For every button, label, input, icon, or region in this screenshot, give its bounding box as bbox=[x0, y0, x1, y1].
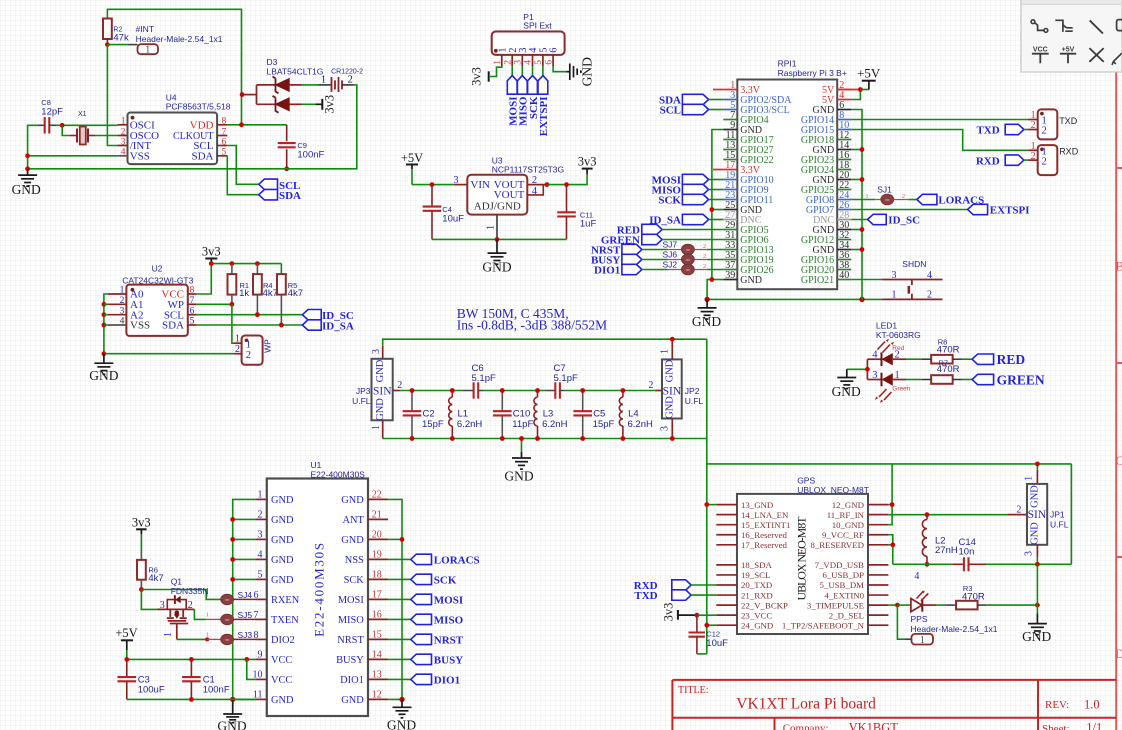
toolbar pen icon bbox=[1112, 53, 1122, 65]
svg-text:6: 6 bbox=[222, 137, 227, 147]
svg-text:6.2nH: 6.2nH bbox=[542, 419, 567, 430]
svg-text:GND: GND bbox=[665, 359, 676, 382]
junction gnd rail left bbox=[25, 166, 30, 171]
GPS pin 12_GND bbox=[868, 504, 888, 506]
toolbar label icon bbox=[1117, 20, 1122, 31]
svg-text:3v3: 3v3 bbox=[470, 67, 484, 86]
svg-text:3: 3 bbox=[514, 60, 524, 65]
junction gnd bus row 7 bbox=[860, 147, 865, 152]
svg-text:3: 3 bbox=[258, 530, 263, 541]
svg-text:PCF8563T/5,518: PCF8563T/5,518 bbox=[166, 101, 231, 111]
junction LED gnd bbox=[865, 367, 870, 372]
svg-text:4: 4 bbox=[872, 350, 878, 361]
header RXD bbox=[1038, 145, 1058, 175]
svg-text:SDA: SDA bbox=[191, 150, 213, 162]
svg-text:40: 40 bbox=[839, 270, 849, 281]
JP3 pin 2 bbox=[393, 390, 400, 392]
svg-text:6.2nH: 6.2nH bbox=[628, 419, 653, 430]
U4 pin 8 bbox=[217, 124, 227, 126]
svg-text:20: 20 bbox=[372, 530, 382, 541]
wire filter right loop bbox=[706, 339, 708, 654]
svg-text:1: 1 bbox=[493, 60, 503, 65]
U1 pin 4 GND bbox=[256, 558, 267, 560]
RPI1 pin 29 GPIO5 bbox=[723, 229, 737, 231]
svg-text:SJ1: SJ1 bbox=[877, 184, 892, 194]
wire JP1 right loop bbox=[1070, 464, 1072, 564]
svg-text:17_Reserved: 17_Reserved bbox=[741, 540, 788, 550]
svg-text:#INT: #INT bbox=[136, 24, 154, 34]
svg-text:REV:: REV: bbox=[1045, 699, 1069, 711]
svg-text:BUSY: BUSY bbox=[434, 655, 463, 667]
junction C11 bbox=[564, 182, 569, 187]
ground U3 bbox=[496, 239, 498, 253]
power flag 3v3 at U2 bbox=[205, 258, 217, 260]
svg-text:4: 4 bbox=[914, 571, 919, 582]
svg-text:1: 1 bbox=[895, 370, 900, 381]
svg-text:1: 1 bbox=[485, 225, 496, 230]
capacitor C4 bbox=[431, 185, 433, 207]
RPI1 pin 4 5V bbox=[837, 99, 851, 101]
U1 pin 11 GND bbox=[256, 698, 267, 700]
svg-text:3v3: 3v3 bbox=[202, 244, 221, 258]
svg-text:10n: 10n bbox=[959, 546, 975, 557]
svg-text:VIN: VIN bbox=[470, 179, 490, 191]
svg-text:1.0: 1.0 bbox=[1084, 697, 1100, 711]
svg-text:6: 6 bbox=[190, 306, 195, 316]
power flag 3v3 at P1 bbox=[488, 71, 490, 81]
svg-text:TXD: TXD bbox=[976, 125, 999, 137]
wire U2 left gnd bbox=[104, 294, 108, 354]
junction U2 left bbox=[102, 302, 107, 307]
svg-text:UBLOX NEO-M8T: UBLOX NEO-M8T bbox=[794, 516, 808, 601]
RPI1 pin 36 GPIO16 bbox=[837, 259, 851, 261]
GPS pin 3_TIMEPULSE bbox=[868, 604, 888, 606]
svg-text:39: 39 bbox=[725, 270, 735, 281]
U3 pin 4 bbox=[527, 185, 543, 195]
wire left GND bus bbox=[707, 130, 723, 300]
junction C4 bbox=[430, 182, 435, 187]
GPS pin 5_USB_DM bbox=[868, 584, 888, 586]
junction JP2 pin1 bbox=[670, 337, 675, 342]
svg-text:1: 1 bbox=[1024, 476, 1035, 481]
svg-text:SDA: SDA bbox=[162, 320, 184, 332]
svg-text:3v3: 3v3 bbox=[578, 155, 597, 169]
U1 pin 12 GND bbox=[368, 698, 388, 700]
junction D3 common bbox=[240, 92, 245, 97]
svg-text:3: 3 bbox=[892, 270, 897, 281]
RPI1 pin 16 GPIO23 bbox=[837, 159, 851, 161]
net port SCL bbox=[259, 179, 278, 189]
ground RTC bbox=[27, 169, 29, 175]
U4 pin 7 bbox=[217, 135, 227, 137]
net port SCK bbox=[532, 66, 534, 76]
wire SDA/ID_SA bbox=[197, 324, 303, 326]
svg-text:U.FL: U.FL bbox=[352, 396, 371, 406]
P1 pin 1 bbox=[501, 55, 503, 66]
net port SCK at U1 bbox=[388, 578, 411, 580]
svg-text:470R: 470R bbox=[937, 344, 960, 355]
P1 pin 5 bbox=[542, 55, 544, 66]
RPI1 pin 27 DNC bbox=[723, 219, 737, 221]
GPS pin 23_VCC bbox=[716, 614, 737, 616]
svg-text:SIN: SIN bbox=[1028, 509, 1047, 521]
svg-text:16_Reserved: 16_Reserved bbox=[741, 530, 788, 540]
svg-text:DIO1: DIO1 bbox=[594, 265, 620, 277]
svg-text:VCC: VCC bbox=[271, 675, 292, 686]
svg-text:TITLE:: TITLE: bbox=[678, 685, 709, 696]
wire 13_GND bbox=[707, 504, 717, 506]
svg-text:5.1pF: 5.1pF bbox=[554, 373, 578, 384]
U4 pin 6 bbox=[217, 145, 227, 147]
junction gnd bus row 15 bbox=[860, 227, 865, 232]
net port SDA at RPI bbox=[682, 94, 708, 104]
GPS pin 20_TXD bbox=[716, 584, 737, 586]
U1 pin 8 DIO2 bbox=[256, 638, 267, 640]
power flag +5V at U1 bbox=[121, 639, 133, 641]
net port RED at LED bbox=[972, 354, 994, 364]
svg-text:2: 2 bbox=[397, 380, 402, 391]
junction C3 bbox=[124, 657, 129, 662]
junction WP2 row bbox=[102, 351, 107, 356]
ground RPI bbox=[706, 299, 708, 308]
GPS pin 10_GND bbox=[868, 524, 888, 526]
svg-text:11_RF_IN: 11_RF_IN bbox=[827, 510, 865, 520]
inductor L2 bbox=[926, 515, 928, 520]
svg-text:1: 1 bbox=[865, 193, 868, 200]
wire U1 bottom gnd rail bbox=[127, 698, 256, 700]
svg-text:100nF: 100nF bbox=[297, 149, 324, 160]
GPS pin 15_EXTINT1 bbox=[716, 524, 737, 526]
svg-text:20_TXD: 20_TXD bbox=[741, 580, 772, 590]
RPI1 pin 18 GPIO24 bbox=[837, 169, 851, 171]
RPI1 pin 12 GPIO18 bbox=[837, 139, 851, 141]
svg-text:DIO1: DIO1 bbox=[340, 675, 364, 686]
svg-text:GND: GND bbox=[341, 695, 364, 706]
U2 pin 3 bbox=[108, 314, 126, 316]
title block frame bbox=[672, 679, 1116, 681]
wire SCL to flag bbox=[227, 146, 258, 185]
svg-text:3: 3 bbox=[453, 175, 458, 186]
svg-text:3_TIMEPULSE: 3_TIMEPULSE bbox=[807, 600, 864, 610]
RPI1 pin 2 5V bbox=[837, 89, 851, 91]
U2 pin 1 bbox=[108, 293, 126, 295]
svg-text:3: 3 bbox=[660, 426, 671, 431]
junction right bus bottom bbox=[859, 297, 864, 302]
wire filter bottom rail bbox=[383, 438, 707, 440]
svg-text:10uF: 10uF bbox=[442, 213, 464, 224]
RPI1 pin 19 GPIO10 bbox=[723, 179, 737, 181]
svg-text:6_USB_DP: 6_USB_DP bbox=[822, 570, 864, 580]
svg-text:3: 3 bbox=[872, 370, 877, 381]
junction C1 bbox=[189, 657, 194, 662]
capacitor C11 bbox=[566, 185, 568, 213]
svg-text:4: 4 bbox=[532, 186, 538, 197]
svg-text:3: 3 bbox=[121, 137, 126, 147]
ground U1 left bbox=[232, 699, 234, 714]
svg-text:2: 2 bbox=[1031, 120, 1036, 131]
svg-text:6.2nH: 6.2nH bbox=[457, 419, 482, 430]
svg-text:MISO: MISO bbox=[434, 615, 464, 627]
wire SDA to flag bbox=[227, 156, 258, 195]
svg-text:2: 2 bbox=[120, 296, 125, 306]
svg-text:1k: 1k bbox=[239, 288, 249, 299]
svg-text:RED: RED bbox=[997, 352, 1026, 367]
svg-text:B: B bbox=[1115, 258, 1122, 273]
junction pin12 bbox=[399, 697, 404, 702]
junction JP1 pin1 bbox=[1035, 462, 1040, 467]
svg-text:GND: GND bbox=[12, 182, 41, 197]
net port SDA bbox=[259, 190, 278, 200]
capacitor C14 bbox=[952, 563, 964, 565]
GPS pin 4_EXTIN0 bbox=[868, 594, 888, 596]
svg-text:2: 2 bbox=[1016, 505, 1021, 516]
RPI1 pin 15 GPIO22 bbox=[723, 159, 737, 161]
svg-text:TXD: TXD bbox=[1059, 116, 1078, 126]
wire JP1 gnd down bbox=[1036, 564, 1038, 613]
junction filter row bbox=[500, 388, 505, 393]
RPI1 pin 11 GPIO17 bbox=[723, 139, 737, 141]
net port LORACS at RPI bbox=[908, 199, 917, 201]
solder jumper SJ7 bbox=[682, 244, 695, 254]
svg-text:1: 1 bbox=[892, 290, 897, 301]
svg-text:100nF: 100nF bbox=[203, 685, 230, 696]
net port LORACS at U1 bbox=[388, 558, 411, 560]
svg-text:JP1: JP1 bbox=[1050, 510, 1065, 520]
svg-text:GND: GND bbox=[375, 398, 386, 421]
net port MOSI bbox=[511, 66, 513, 76]
ground P1 (rotated) bbox=[567, 71, 570, 73]
junction VCC10 branch bbox=[244, 657, 249, 662]
wire 3.3V pin1 bbox=[713, 89, 723, 91]
svg-text:2: 2 bbox=[648, 380, 653, 391]
svg-text:SIN: SIN bbox=[663, 386, 682, 398]
GPS pin 6_USB_DP bbox=[868, 574, 888, 576]
GPS pin 9_VCC_RF bbox=[868, 534, 888, 536]
wire GPIO15 to RXD header bbox=[851, 130, 1027, 151]
svg-text:5: 5 bbox=[534, 60, 544, 65]
junction JP2 pin3 bbox=[670, 436, 675, 441]
U2 pin 5 bbox=[188, 324, 197, 326]
svg-text:17: 17 bbox=[372, 590, 382, 601]
svg-text:VSS: VSS bbox=[130, 320, 150, 332]
toolbar line icon bbox=[1090, 20, 1103, 33]
U2 pin 7 bbox=[188, 303, 197, 305]
RPI1 pin 34 GND bbox=[837, 249, 851, 251]
svg-text:2_D_SEL: 2_D_SEL bbox=[829, 610, 864, 620]
svg-text:SJ4: SJ4 bbox=[238, 590, 253, 600]
svg-text:1uF: 1uF bbox=[580, 219, 597, 230]
wire +5V rail U1 bbox=[127, 658, 256, 660]
power flag +5V at U3 bbox=[406, 164, 418, 166]
svg-text:15_EXTINT1: 15_EXTINT1 bbox=[741, 520, 790, 530]
wire WP net bbox=[197, 303, 232, 305]
junction gnd bus row 10 bbox=[860, 177, 865, 182]
svg-text:GND: GND bbox=[271, 535, 294, 546]
svg-text:47k: 47k bbox=[113, 33, 129, 44]
svg-text:1: 1 bbox=[206, 611, 209, 618]
svg-text:7_VDD_USB: 7_VDD_USB bbox=[815, 560, 864, 570]
svg-text:6: 6 bbox=[549, 48, 560, 53]
svg-text:2: 2 bbox=[1042, 157, 1047, 168]
svg-text:8_RESERVED: 8_RESERVED bbox=[810, 540, 864, 550]
junction L2 bbox=[925, 512, 930, 517]
svg-text:1: 1 bbox=[920, 635, 925, 646]
svg-text:1: 1 bbox=[163, 632, 174, 637]
junction 23_VCC bbox=[695, 613, 700, 618]
JP2 pin 2 bbox=[656, 390, 663, 392]
svg-text:GND: GND bbox=[387, 718, 416, 730]
RPI1 pin 25 GND bbox=[723, 209, 737, 211]
net port TXD bbox=[1005, 124, 1024, 134]
svg-text:2: 2 bbox=[927, 290, 932, 301]
net port GREEN at LED bbox=[972, 374, 994, 384]
net port MISO at RPI bbox=[682, 184, 708, 194]
svg-text:4k7: 4k7 bbox=[148, 573, 163, 584]
net port RXD bbox=[1005, 155, 1024, 165]
GPS pin 8_RESERVED bbox=[868, 544, 888, 546]
svg-text:3: 3 bbox=[120, 306, 125, 316]
net port DIO1 bbox=[622, 264, 642, 274]
U1 pin 15 NRST bbox=[368, 638, 388, 640]
wire VSS net bbox=[28, 155, 118, 157]
net port NRST bbox=[622, 244, 642, 254]
wire PPS header bbox=[897, 605, 905, 639]
svg-text:U.FL: U.FL bbox=[1050, 519, 1069, 529]
svg-text:RXD: RXD bbox=[976, 155, 1000, 167]
capacitor C1 bbox=[190, 659, 192, 677]
svg-text:SHDN: SHDN bbox=[902, 259, 926, 269]
svg-text:MISO: MISO bbox=[338, 615, 364, 626]
svg-text:12_GND: 12_GND bbox=[832, 500, 864, 510]
U1 pin 6 RXEN bbox=[256, 598, 267, 600]
svg-text:5: 5 bbox=[190, 317, 195, 327]
svg-text:Sheet:: Sheet: bbox=[1042, 723, 1070, 730]
GPS pin 16_Reserved bbox=[716, 534, 737, 536]
svg-text:TXD: TXD bbox=[634, 590, 657, 602]
svg-text:7: 7 bbox=[190, 296, 195, 306]
svg-text:1: 1 bbox=[660, 349, 671, 354]
svg-text:2: 2 bbox=[503, 60, 513, 65]
junction filter row bbox=[580, 388, 585, 393]
P1 pin 3 bbox=[521, 55, 523, 66]
svg-text:23_VCC: 23_VCC bbox=[741, 610, 772, 620]
junction VDD bbox=[239, 122, 244, 127]
svg-text:GND: GND bbox=[1022, 629, 1051, 644]
sheet frame right border bbox=[1115, 0, 1117, 730]
svg-text:FDN335N: FDN335N bbox=[171, 586, 209, 596]
RPI1 pin 22 GPIO25 bbox=[837, 189, 851, 191]
svg-text:19_SCL: 19_SCL bbox=[741, 570, 770, 580]
svg-text:VK1XT Lora Pi board: VK1XT Lora Pi board bbox=[736, 695, 876, 712]
svg-text:EXTSPI: EXTSPI bbox=[538, 97, 550, 137]
svg-text:2: 2 bbox=[1042, 126, 1047, 137]
wire RPI gnd rail bbox=[707, 298, 882, 300]
wire OSCO bbox=[95, 135, 117, 137]
svg-text:+5V: +5V bbox=[401, 151, 423, 165]
ground U1 right bbox=[401, 699, 403, 707]
svg-text:SIN: SIN bbox=[373, 386, 392, 398]
U4 pin 1 bbox=[117, 124, 127, 126]
svg-text:U1: U1 bbox=[311, 460, 322, 470]
wire GPIO21 to SHDN bbox=[851, 279, 882, 281]
wire RF gnd rail bbox=[893, 563, 953, 565]
svg-text:4k7: 4k7 bbox=[263, 288, 278, 299]
net port MISO bbox=[521, 66, 523, 76]
svg-text:SJ6: SJ6 bbox=[663, 250, 678, 260]
svg-text:Company:: Company: bbox=[783, 723, 829, 730]
svg-text:LORACS: LORACS bbox=[434, 555, 480, 567]
RPI1 pin 37 GPIO26 bbox=[723, 269, 737, 271]
svg-text:EXTSPI: EXTSPI bbox=[990, 205, 1030, 217]
svg-text:11pF: 11pF bbox=[512, 419, 533, 430]
U1 pin 18 SCK bbox=[368, 578, 388, 580]
svg-text:VSS: VSS bbox=[130, 150, 150, 162]
svg-text:TXEN: TXEN bbox=[271, 615, 299, 626]
svg-text:SDA: SDA bbox=[279, 190, 301, 202]
svg-text:9_VCC_RF: 9_VCC_RF bbox=[822, 530, 864, 540]
svg-text:GND: GND bbox=[375, 359, 386, 382]
junction PPS bbox=[895, 603, 900, 608]
svg-text:7: 7 bbox=[222, 127, 227, 137]
wire VDD top loop bbox=[107, 9, 241, 125]
LED1 green emission arrows bbox=[879, 389, 892, 400]
svg-text:NRST: NRST bbox=[434, 635, 464, 647]
svg-text:21_RXD: 21_RXD bbox=[741, 590, 773, 600]
toolbar panel bbox=[1021, 0, 1122, 72]
GPS pin 11_RF_IN bbox=[868, 514, 888, 516]
svg-text:VCC: VCC bbox=[271, 655, 292, 666]
junction filter row bbox=[621, 388, 626, 393]
junction pin25 bbox=[710, 207, 715, 212]
svg-text:+5V: +5V bbox=[857, 65, 881, 80]
net port MOSI at RPI bbox=[682, 174, 708, 184]
junction U1 bus bbox=[230, 537, 235, 542]
svg-text:SCK: SCK bbox=[434, 575, 457, 587]
net port MOSI at U1 bbox=[388, 598, 411, 600]
RPI1 pin 17 3.3V bbox=[723, 169, 737, 171]
power flag +5V at RPI bbox=[868, 81, 870, 89]
svg-text:KT-0603RG: KT-0603RG bbox=[876, 330, 921, 340]
net port EXTSPI bbox=[542, 66, 544, 76]
wire U3 gnd rail bbox=[432, 238, 567, 240]
P1 pin 4 bbox=[532, 55, 534, 66]
wire R6 to Q1 gate bbox=[141, 590, 157, 610]
svg-text:4k7: 4k7 bbox=[288, 288, 303, 299]
Q1 source pin 1 bbox=[176, 624, 178, 640]
junction 12_GND bbox=[890, 502, 895, 507]
svg-text:Header-Male-2.54_1x1: Header-Male-2.54_1x1 bbox=[136, 34, 223, 44]
svg-text:MOSI: MOSI bbox=[338, 595, 365, 606]
svg-text:4: 4 bbox=[121, 148, 126, 158]
svg-text:4: 4 bbox=[927, 270, 932, 281]
svg-text:2: 2 bbox=[348, 75, 353, 86]
U1 pin 5 GND bbox=[256, 578, 267, 580]
net port EXTSPI bbox=[851, 209, 967, 211]
power flag 3v3 at D3 bbox=[302, 103, 316, 105]
U1 pin 1 GND bbox=[256, 498, 267, 500]
svg-text:3: 3 bbox=[160, 600, 165, 611]
svg-text:6: 6 bbox=[544, 60, 554, 65]
power flag 3v3 at R6 bbox=[136, 528, 147, 530]
wire Q1 to SJ3 bbox=[177, 638, 206, 640]
U3 pin 2 bbox=[527, 184, 547, 186]
svg-text:GND: GND bbox=[1030, 485, 1041, 508]
svg-text:VOUT: VOUT bbox=[494, 189, 525, 201]
junction filter gnd bbox=[519, 436, 524, 441]
U1 pin 19 NSS bbox=[368, 558, 388, 560]
svg-text:GND: GND bbox=[665, 396, 676, 419]
svg-text:SPI Ext: SPI Ext bbox=[523, 21, 552, 31]
